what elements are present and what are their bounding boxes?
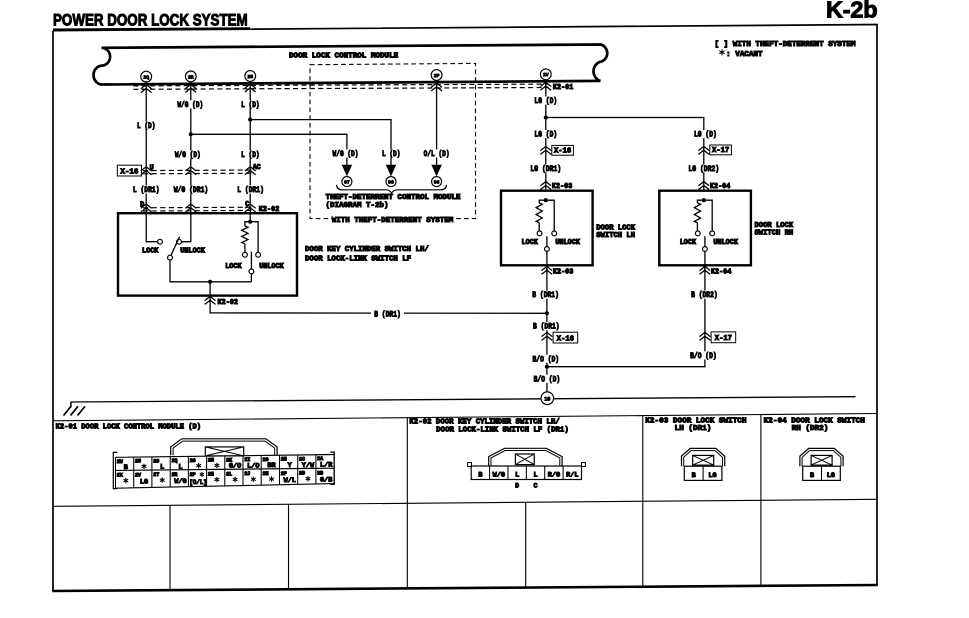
svg-text:L: L bbox=[178, 463, 182, 471]
svg-text:X-16: X-16 bbox=[120, 168, 138, 176]
chevron at K2-02 row bbox=[185, 204, 196, 212]
connector label K2-01 at pin 2V bbox=[552, 83, 574, 91]
svg-text:UNLOCK: UNLOCK bbox=[259, 263, 284, 271]
svg-text:[O/L]: [O/L] bbox=[189, 479, 207, 486]
wire from lock-link pivot bbox=[250, 274, 252, 282]
module pin 2Q bbox=[141, 71, 152, 82]
svg-text:R/G: R/G bbox=[548, 471, 560, 479]
svg-text:LG: LG bbox=[827, 472, 835, 480]
connector K2-03 lock tab with X bbox=[693, 455, 714, 465]
wire label B (DR2) bbox=[690, 291, 718, 299]
svg-text:U: U bbox=[150, 165, 154, 173]
connector K2-02 hood bbox=[489, 448, 562, 466]
wire label B/O (D) bbox=[532, 355, 560, 363]
wire L(D) to theft-deterrent module bbox=[250, 120, 391, 166]
svg-text:(DIAGRAM T-2b): (DIAGRAM T-2b) bbox=[326, 202, 389, 210]
svg-text:X-16: X-16 bbox=[557, 335, 574, 343]
wire label W/G (DR1) bbox=[173, 186, 209, 194]
arrow terminal to theft-deterrent module pin 98 bbox=[386, 165, 395, 175]
connector K2-03 hood bbox=[682, 448, 725, 466]
svg-text:K2-03: K2-03 bbox=[553, 268, 574, 276]
svg-text:L: L bbox=[160, 464, 164, 472]
svg-text:B: B bbox=[810, 472, 814, 480]
svg-text:10: 10 bbox=[544, 397, 550, 403]
door lock switch RH box bbox=[659, 191, 751, 266]
junction inside door lock switch LH bbox=[544, 198, 548, 202]
wire from pivot RH out of box bbox=[704, 251, 706, 270]
wire LG(D) branch to RH switch bbox=[546, 118, 704, 191]
svg-text:LG: LG bbox=[708, 472, 716, 480]
svg-text:BR: BR bbox=[267, 462, 276, 470]
table divider row1 x=760.9 bbox=[760, 415, 762, 501]
table divider row2 x=407.3 bbox=[406, 503, 408, 588]
key switch lever bbox=[171, 237, 180, 256]
svg-text:L (D): L (D) bbox=[382, 150, 401, 159]
svg-text:O/L (D): O/L (D) bbox=[424, 150, 450, 159]
table divider row2 x=170 bbox=[169, 505, 171, 590]
svg-text:C: C bbox=[245, 201, 250, 209]
LOCK terminal LH bbox=[537, 231, 542, 236]
junction of B/O wires bbox=[545, 365, 549, 369]
svg-text:2S: 2S bbox=[247, 74, 253, 80]
key switch UNLOCK terminal bbox=[177, 239, 182, 244]
branch bar LH bbox=[539, 200, 554, 231]
wire W/G(D) to theft-deterrent module bbox=[191, 134, 347, 165]
svg-text:L: L bbox=[533, 471, 537, 479]
legend: *: VACANT bbox=[719, 49, 724, 55]
svg-text:W/G (D): W/G (D) bbox=[175, 151, 201, 160]
connector K2-01 hood bbox=[171, 439, 277, 456]
branch bar RH bbox=[697, 200, 712, 231]
connector table middle line bbox=[53, 499, 877, 506]
chevron K2-03 on LG wire bbox=[540, 182, 551, 190]
svg-text:: VACANT: : VACANT bbox=[726, 51, 763, 59]
table divider row2 x=288.5 bbox=[288, 504, 290, 589]
in-line connector X-16 on B wire bbox=[542, 332, 553, 340]
wire label O/L (D) in theft box bbox=[423, 149, 451, 157]
svg-text:L (D): L (D) bbox=[241, 101, 260, 110]
svg-text:K2-01 DOOR LOCK CONTROL MODULE: K2-01 DOOR LOCK CONTROL MODULE (D) bbox=[56, 424, 202, 432]
wire out of key cylinder box to ground bus bbox=[210, 282, 547, 314]
svg-text:K2-02 DOOR KEY CYLINDER SWITCH: K2-02 DOOR KEY CYLINDER SWITCH LH/ bbox=[409, 419, 559, 427]
svg-text:B: B bbox=[692, 472, 696, 480]
chevron at X-16 row bbox=[185, 167, 196, 175]
wire label L (DR1) bbox=[132, 186, 160, 194]
svg-text:SWITCH RH: SWITCH RH bbox=[755, 230, 794, 238]
connector chevron under pin 2V bbox=[540, 82, 551, 90]
chevron at X-16 row bbox=[245, 167, 256, 175]
outer frame bottom edge bbox=[52, 585, 878, 591]
svg-text:R/L: R/L bbox=[566, 471, 578, 479]
in-line connector X-16 dashed row bbox=[143, 169, 255, 172]
connector table top line bbox=[53, 414, 877, 421]
wire label B (DR1) bbox=[532, 291, 560, 299]
svg-text:B/O (D): B/O (D) bbox=[534, 375, 561, 384]
lock-link LOCK terminal bbox=[243, 252, 248, 257]
svg-text:W/G (D): W/G (D) bbox=[333, 150, 359, 159]
module boundary dashed double line bbox=[133, 84, 548, 86]
wire label L (D) lower bbox=[240, 150, 260, 158]
svg-text:LOCK: LOCK bbox=[680, 239, 697, 247]
outer frame bbox=[53, 25, 877, 592]
svg-text:DOOR KEY CYLINDER SWITCH LH/: DOOR KEY CYLINDER SWITCH LH/ bbox=[305, 246, 429, 254]
svg-text:X-17: X-17 bbox=[715, 335, 732, 343]
svg-text:G/O: G/O bbox=[229, 463, 241, 471]
svg-text:THEFT-DETERRENT CONTROL MODULE: THEFT-DETERRENT CONTROL MODULE bbox=[326, 194, 462, 202]
svg-text:L/O: L/O bbox=[247, 462, 259, 470]
chevron K2-02 below box bbox=[205, 296, 216, 304]
connector K2-02 pin row bbox=[471, 466, 581, 480]
svg-text:UNLOCK: UNLOCK bbox=[180, 248, 205, 256]
theft-deterrent dashed enclosure bbox=[310, 63, 476, 218]
svg-text:2Q: 2Q bbox=[171, 458, 177, 464]
svg-text:2V: 2V bbox=[543, 72, 549, 78]
chevron K2-04 on LG wire bbox=[698, 182, 709, 190]
connector K2-02 right ear bbox=[582, 463, 586, 467]
lever LH bbox=[546, 236, 548, 246]
svg-text:2P: 2P bbox=[190, 472, 196, 478]
in-line connector X-17 on LG wire bbox=[698, 146, 709, 154]
wire label W/G (D) lower bbox=[174, 150, 202, 158]
in-line connector X-16 on LG wire bbox=[540, 146, 551, 154]
terminal circle 98 bbox=[386, 177, 396, 187]
junction on 2R wire bbox=[189, 132, 193, 136]
svg-text:97: 97 bbox=[344, 180, 350, 186]
svg-text:2L: 2L bbox=[226, 471, 232, 477]
wire label LG (D) left branch bbox=[534, 130, 558, 138]
connector K2-02 lock tab with X bbox=[515, 454, 534, 465]
key switch pivot terminal bbox=[168, 255, 173, 260]
in-line connector K2-02 dashed row bbox=[143, 206, 255, 209]
wire B(DR1) from door lock switch LH bbox=[546, 265, 548, 391]
connector K2-01 end bracket left bbox=[113, 452, 117, 488]
chevron at X-16 row bbox=[141, 167, 152, 175]
svg-text:DOOR LOCK-LINK SWITCH LF (DR1): DOOR LOCK-LINK SWITCH LF (DR1) bbox=[436, 427, 569, 435]
wire label LG (DR1) bbox=[530, 164, 562, 172]
connector K2-01 hood lock tab with X bbox=[205, 447, 243, 456]
svg-text:B: B bbox=[124, 464, 128, 472]
wire label L (DR1) on 2S wire bbox=[237, 186, 265, 194]
svg-text:POWER DOOR LOCK SYSTEM: POWER DOOR LOCK SYSTEM bbox=[53, 12, 248, 30]
svg-text:SWITCH LH: SWITCH LH bbox=[596, 232, 635, 240]
lock-link UNLOCK terminal bbox=[256, 252, 261, 257]
svg-text:2U: 2U bbox=[135, 459, 141, 465]
chevron at K2-02 row bbox=[245, 204, 256, 212]
svg-text:K-2b: K-2b bbox=[826, 0, 877, 23]
terminal circle 98 bbox=[432, 177, 442, 187]
svg-text:L/R: L/R bbox=[320, 462, 333, 470]
svg-text:DOOR LOCK CONTROL MODULE: DOOR LOCK CONTROL MODULE bbox=[289, 52, 399, 60]
svg-text:B (DR1): B (DR1) bbox=[374, 310, 401, 319]
svg-text:D: D bbox=[515, 482, 519, 489]
wire label L (D) in theft box bbox=[381, 149, 401, 157]
in-line connector X-17 on B wire bbox=[700, 332, 711, 340]
svg-text:W/G (DR1): W/G (DR1) bbox=[174, 186, 209, 195]
chevron at K2-02 row bbox=[141, 204, 152, 212]
svg-text:LG (D): LG (D) bbox=[694, 131, 717, 140]
svg-text:LG (D): LG (D) bbox=[534, 131, 557, 140]
svg-text:2M: 2M bbox=[208, 458, 214, 464]
wire L(D) from pin 2Q bbox=[146, 82, 157, 242]
svg-text:WITH THEFT-DETERRENT SYSTEM: WITH THEFT-DETERRENT SYSTEM bbox=[332, 217, 454, 225]
wire label L (D) on 2Q wire bbox=[136, 121, 156, 129]
terminal circle 97 bbox=[342, 177, 352, 187]
key switch LOCK terminal bbox=[158, 239, 163, 244]
svg-text:DOOR LOCK-LINK SWITCH LF: DOOR LOCK-LINK SWITCH LF bbox=[305, 255, 411, 263]
svg-text:W/G: W/G bbox=[493, 471, 505, 479]
svg-text:B/O (D): B/O (D) bbox=[690, 352, 717, 361]
svg-text:AC: AC bbox=[253, 164, 262, 172]
svg-text:2S: 2S bbox=[153, 458, 159, 464]
wire L(D) from pin 2S bbox=[249, 81, 251, 221]
wire from pivot LH out of box bbox=[546, 251, 548, 270]
wire label B (DR1) lower bbox=[532, 322, 560, 330]
UNLOCK terminal LH bbox=[552, 231, 557, 236]
door key cylinder switch LH / door lock-link switch LF box bbox=[118, 213, 297, 295]
junction with key cylinder wire bbox=[545, 311, 549, 315]
module pin 2R bbox=[185, 71, 196, 82]
svg-text:X-17: X-17 bbox=[712, 147, 729, 155]
connector chevron under pin 2S bbox=[245, 84, 256, 92]
svg-text:X-16: X-16 bbox=[554, 148, 571, 156]
lever RH bbox=[704, 236, 706, 246]
pivot terminal RH bbox=[703, 247, 708, 252]
pivot terminal LH bbox=[545, 247, 550, 252]
svg-text:B (DR2): B (DR2) bbox=[691, 291, 718, 300]
connector K2-03 pin row bbox=[684, 466, 722, 480]
connector chevron under pin 2Q bbox=[141, 85, 152, 93]
connector K2-01 pin grid bbox=[116, 455, 335, 489]
svg-text:B (DR1): B (DR1) bbox=[532, 291, 559, 300]
junction on 2S wire bbox=[248, 118, 252, 122]
svg-text:LOCK: LOCK bbox=[225, 263, 242, 271]
connector box X-16 bbox=[117, 165, 141, 176]
wire label B/O (D) lower bbox=[533, 375, 561, 383]
UNLOCK terminal RH bbox=[710, 231, 715, 236]
junction at 2S wire in box bbox=[248, 220, 252, 224]
svg-text:LOCK: LOCK bbox=[142, 248, 159, 256]
svg-text:B: B bbox=[478, 471, 482, 479]
lock-link pivot terminal bbox=[249, 269, 254, 274]
ground connector circle 10 bbox=[541, 392, 554, 405]
svg-text:LG (DR1): LG (DR1) bbox=[530, 165, 561, 174]
svg-text:RH (DR2): RH (DR2) bbox=[792, 425, 829, 433]
svg-text:[ ] WITH THEFT-DETERRENT SYSTE: [ ] WITH THEFT-DETERRENT SYSTEM bbox=[715, 41, 856, 49]
ground bus line bbox=[71, 397, 856, 402]
svg-text:98: 98 bbox=[434, 180, 440, 186]
svg-text:L (D): L (D) bbox=[137, 122, 156, 131]
connector K2-01 end bracket right bbox=[330, 452, 334, 484]
svg-text:2W: 2W bbox=[117, 459, 123, 465]
svg-text:LH (DR1): LH (DR1) bbox=[675, 425, 712, 433]
wire O/L(D) from pin 2P to theft-deterrent module bbox=[436, 80, 438, 165]
table divider row2 x=642.8 bbox=[642, 501, 644, 586]
svg-text:LG (D): LG (D) bbox=[534, 97, 557, 106]
connector K2-04 pin row bbox=[803, 466, 841, 480]
brace under theft-deterrent terminals bbox=[337, 185, 447, 193]
wire label L (D) bbox=[240, 100, 260, 108]
svg-text:2Q: 2Q bbox=[143, 75, 149, 81]
module pin 2V bbox=[540, 69, 551, 80]
LOCK terminal RH bbox=[695, 231, 700, 236]
svg-text:2T: 2T bbox=[153, 472, 159, 478]
junction on LG wire bbox=[544, 115, 548, 119]
wire label LG (D) bbox=[534, 97, 558, 105]
svg-text:D: D bbox=[140, 202, 145, 210]
svg-text:2R: 2R bbox=[188, 74, 194, 80]
resistor in lock-link switch bbox=[242, 226, 248, 244]
svg-text:C: C bbox=[534, 482, 538, 489]
wire label B/O (D) right bbox=[689, 351, 717, 359]
svg-text:UNLOCK: UNLOCK bbox=[713, 239, 738, 247]
svg-text:Y/W: Y/W bbox=[302, 462, 315, 470]
arrow terminal to theft-deterrent module pin 98 bbox=[432, 165, 441, 175]
table divider row1 x=407.3 bbox=[406, 418, 408, 504]
svg-text:K2-02: K2-02 bbox=[218, 299, 239, 307]
svg-text:K2-04: K2-04 bbox=[711, 268, 732, 276]
svg-text:W/G: W/G bbox=[174, 478, 186, 486]
svg-text:UNLOCK: UNLOCK bbox=[555, 239, 580, 247]
ground symbol bbox=[70, 402, 72, 407]
svg-text:2N: 2N bbox=[208, 472, 214, 478]
module pin 2P bbox=[431, 70, 442, 81]
svg-text:LG (DR2): LG (DR2) bbox=[688, 165, 719, 174]
svg-text:98: 98 bbox=[388, 180, 394, 186]
svg-text:LG: LG bbox=[140, 478, 148, 486]
resistor in door lock switch LH bbox=[536, 203, 542, 223]
wire from key switch pivot bbox=[170, 260, 251, 282]
connector K2-04 lock tab with X bbox=[811, 455, 832, 465]
connector K2-04 hood bbox=[800, 448, 843, 466]
svg-text:2J: 2J bbox=[244, 471, 250, 477]
junction inside door lock switch RH bbox=[702, 198, 706, 202]
title underline bbox=[53, 28, 250, 29]
svg-text:L (D): L (D) bbox=[241, 151, 260, 160]
svg-text:L (DR1): L (DR1) bbox=[237, 186, 264, 195]
wire label B (DR1) on horizontal run bbox=[371, 309, 404, 318]
svg-text:L (DR1): L (DR1) bbox=[133, 186, 160, 195]
chevron K2-03 below LH box bbox=[542, 266, 553, 274]
wire label LG (D) right branch bbox=[693, 130, 717, 138]
label WITH THEFT-DETERRENT SYSTEM on dashed edge bbox=[331, 214, 455, 224]
svg-text:2O: 2O bbox=[190, 458, 196, 464]
wire label W/G (D) in theft box bbox=[332, 149, 360, 157]
svg-text:2E: 2E bbox=[281, 457, 287, 463]
svg-text:G/B: G/B bbox=[320, 476, 332, 484]
connector chevron under pin 2P bbox=[431, 83, 442, 91]
svg-text:2P: 2P bbox=[434, 73, 440, 79]
wire B(DR2) from door lock switch RH bbox=[547, 265, 705, 366]
svg-text:2X: 2X bbox=[117, 473, 123, 479]
chevron K2-04 below RH box bbox=[700, 266, 711, 274]
svg-text:B/O (D): B/O (D) bbox=[533, 355, 560, 364]
svg-text:W/G (D): W/G (D) bbox=[177, 101, 203, 110]
svg-text:L: L bbox=[515, 471, 519, 479]
junction in key cylinder box bbox=[208, 280, 212, 284]
wire label LG (DR2) bbox=[688, 164, 720, 172]
door lock switch LH box bbox=[501, 191, 593, 266]
wire label W/G (D) bbox=[177, 100, 205, 108]
lock-link lever bbox=[250, 252, 252, 269]
svg-text:W/L: W/L bbox=[284, 477, 296, 485]
connector chevron under pin 2R bbox=[185, 84, 196, 92]
lock-link switch branch bar bbox=[245, 222, 258, 253]
svg-text:K2-01: K2-01 bbox=[553, 84, 574, 92]
harness bus of door lock control module bbox=[93, 45, 607, 85]
table divider row1 x=642.8 bbox=[642, 416, 644, 502]
arrow terminal to theft-deterrent module pin 97 bbox=[342, 165, 351, 175]
table divider row2 x=760.9 bbox=[760, 500, 762, 586]
resistor in door lock switch RH bbox=[694, 203, 700, 223]
svg-text:2D: 2D bbox=[299, 471, 305, 477]
module pin 2S bbox=[245, 71, 256, 82]
svg-text:2H: 2H bbox=[263, 471, 269, 477]
svg-text:B (DR1): B (DR1) bbox=[533, 323, 560, 332]
connector K2-02 left ear bbox=[468, 463, 472, 467]
svg-text:LOCK: LOCK bbox=[522, 239, 539, 247]
wire LG(D) from pin 2V bbox=[545, 80, 547, 191]
wire W/G(D) from pin 2R bbox=[181, 82, 190, 242]
table divider row2 x=525.7 bbox=[525, 502, 527, 587]
